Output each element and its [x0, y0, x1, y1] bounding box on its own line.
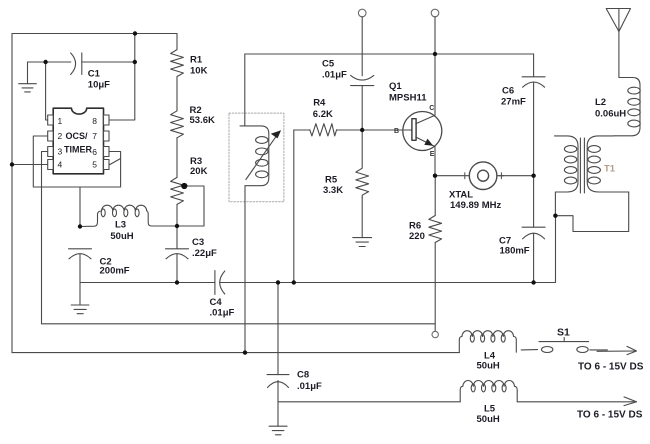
- inductor L3: [80, 205, 177, 226]
- wire C8 to L5 row: [278, 401, 460, 403]
- svg-text:5: 5: [92, 160, 97, 170]
- terminal circle T-R6: [432, 331, 438, 337]
- resistor R3: [171, 177, 184, 204]
- wire C1 left lead: [46, 61, 71, 63]
- variable inductor VL1: [240, 54, 269, 353]
- wire C1-right / pin8 riser x=134.8: [109, 34, 135, 121]
- svg-text:R6: R6: [409, 221, 421, 232]
- junction L3 left / C2 top: [78, 224, 82, 228]
- svg-text:TO 6 - 15V DS: TO 6 - 15V DS: [577, 410, 643, 421]
- svg-text:S1: S1: [557, 327, 570, 339]
- svg-text:C1: C1: [88, 69, 101, 80]
- svg-text:L3: L3: [115, 220, 126, 231]
- svg-text:XTAL: XTAL: [449, 190, 473, 201]
- svg-text:T1: T1: [604, 164, 616, 175]
- svg-text:.01μF: .01μF: [322, 70, 347, 81]
- wire bottom rail y=352.6 to L4: [12, 352, 459, 354]
- svg-text:10μF: 10μF: [88, 80, 110, 91]
- svg-text:Q1: Q1: [389, 81, 402, 92]
- svg-text:10K: 10K: [190, 66, 208, 77]
- resistor R4: [310, 124, 337, 136]
- svg-text:3: 3: [58, 147, 63, 157]
- svg-text:27mF: 27mF: [501, 97, 526, 108]
- capacitor C4: [215, 271, 225, 295]
- ground G2 under R5: [353, 238, 372, 247]
- junction VL bottom / supply rail: [243, 350, 247, 354]
- svg-text:50uH: 50uH: [477, 414, 500, 425]
- svg-text:180mF: 180mF: [500, 246, 530, 257]
- resistor R6: [429, 176, 442, 332]
- svg-text:20K: 20K: [190, 166, 208, 177]
- svg-text:8: 8: [92, 116, 97, 126]
- svg-text:L2: L2: [595, 97, 606, 108]
- junction XTAL right / C6-C7 column: [531, 174, 535, 178]
- inductor L4: [459, 331, 516, 353]
- wire pin5 diagonal: [109, 159, 121, 166]
- junction L3 right / R3 bottom / C3 top: [175, 224, 179, 228]
- variable inductor dashed box: [229, 113, 284, 202]
- wire mid rail y=54: [245, 53, 534, 55]
- junction R4 column / ground rail: [292, 280, 296, 284]
- svg-text:6: 6: [92, 147, 97, 157]
- wire Q1 emitter lead: [434, 146, 436, 175]
- capacitor C3: [166, 226, 189, 283]
- switch S1: [521, 338, 607, 353]
- junction collector / mid rail: [433, 52, 437, 56]
- IC U1 pins: [48, 115, 109, 170]
- ground G1 top-left: [19, 84, 37, 92]
- wire T1 primary bottom to junction: [554, 192, 556, 216]
- wire T1 secondary bottom staircase: [555, 192, 628, 232]
- svg-text:L5: L5: [484, 404, 496, 415]
- svg-text:C3: C3: [192, 237, 204, 248]
- junction pin4 / left border: [10, 162, 14, 166]
- wire R1-R2 lead: [176, 77, 178, 111]
- svg-text:0.06uH: 0.06uH: [595, 109, 626, 120]
- svg-text:220: 220: [409, 231, 425, 242]
- svg-text:TIMER: TIMER: [64, 145, 92, 155]
- svg-text:4: 4: [58, 160, 63, 170]
- wire R4 left riser: [293, 130, 295, 283]
- wire pin1 riser: [46, 62, 48, 120]
- wire C5 bottom lead: [361, 86, 363, 130]
- junction C1 right / pin8: [133, 60, 137, 64]
- resistor R5: [356, 130, 369, 197]
- T1 secondary winding: [587, 136, 629, 192]
- wire ground rail y=282.5: [80, 282, 215, 284]
- wire ground stub top-left: [28, 62, 46, 84]
- wire C5 top lead: [361, 17, 363, 76]
- svg-text:1: 1: [58, 116, 63, 126]
- wire R5 ground lead: [361, 197, 363, 237]
- svg-text:R4: R4: [313, 98, 326, 109]
- transistor Q1: [403, 112, 442, 151]
- junction top rail / C1 column: [133, 31, 137, 35]
- capacitor C8: [267, 283, 289, 402]
- wire top-left rail y=33: [12, 33, 177, 35]
- svg-text:R1: R1: [190, 55, 203, 66]
- capacitor C7: [522, 176, 545, 283]
- svg-text:MPSH11: MPSH11: [389, 93, 427, 104]
- T1 primary winding: [555, 136, 579, 192]
- junction C7 bottom / ground rail: [531, 280, 535, 284]
- svg-text:C8: C8: [297, 370, 309, 381]
- svg-text:OCS/: OCS/: [66, 131, 89, 141]
- junction C1 left / pin1: [43, 60, 47, 64]
- ground G3 under C2: [71, 283, 89, 314]
- svg-text:E: E: [430, 151, 435, 158]
- svg-text:149.89 MHz: 149.89 MHz: [450, 200, 501, 211]
- IC U1 OCS/TIMER body: [53, 108, 103, 174]
- antenna AE1: [606, 9, 630, 32]
- svg-text:53.6K: 53.6K: [190, 115, 215, 126]
- node R3 wiper dot: [181, 183, 187, 189]
- svg-text:TO 6 - 15V DS: TO 6 - 15V DS: [578, 362, 644, 373]
- crystal XTAL: [435, 162, 534, 190]
- junction T1 windings common: [553, 214, 557, 218]
- T1 core lines: [579, 138, 581, 193]
- wire pin4 to left border: [12, 164, 48, 166]
- svg-text:C6: C6: [502, 86, 514, 97]
- svg-text:B: B: [394, 128, 399, 135]
- wire ground rail y=282.5 right part: [220, 216, 556, 283]
- svg-text:C4: C4: [210, 297, 223, 308]
- svg-text:7: 7: [92, 131, 97, 141]
- svg-text:3.3K: 3.3K: [323, 185, 343, 196]
- junction C8 top / ground rail: [276, 280, 280, 284]
- svg-text:.01μF: .01μF: [210, 308, 235, 319]
- resistor R2: [171, 111, 184, 138]
- terminal circle T-C5: [358, 9, 366, 17]
- svg-text:C: C: [429, 105, 434, 112]
- ground G4 under C8: [269, 402, 287, 435]
- terminal circle T-Q1: [431, 9, 439, 17]
- capacitor C6: [522, 54, 545, 176]
- svg-text:C5: C5: [322, 59, 335, 70]
- svg-text:6.2K: 6.2K: [313, 109, 333, 120]
- svg-text:200mF: 200mF: [100, 266, 130, 277]
- wire R3 bottom lead: [176, 204, 178, 226]
- inductor L5: [460, 380, 517, 401]
- svg-text:.01μF: .01μF: [297, 381, 322, 392]
- capacitor C2: [69, 249, 92, 283]
- svg-text:50uH: 50uH: [110, 231, 133, 242]
- variable inductor arrow: [246, 130, 281, 179]
- arrow to supply row1: [597, 346, 637, 354]
- node C1 left junction: [28, 62, 71, 120]
- svg-text:.22μF: .22μF: [192, 248, 217, 259]
- wire pin2-pin6 U link: [33, 136, 120, 187]
- capacitor C1: [71, 53, 135, 75]
- svg-text:R5: R5: [325, 175, 338, 186]
- wire pin3 net down and right to terminal: [42, 152, 436, 324]
- wire L5 to arrow row2: [517, 401, 636, 403]
- wire R3 wiper tap: [177, 186, 204, 226]
- wire R4 right lead / base wire: [337, 129, 413, 131]
- svg-text:50uH: 50uH: [477, 361, 500, 372]
- wire U-bottom to L3 stem x=80: [79, 187, 81, 227]
- wire R4 left lead: [294, 129, 310, 131]
- wire R2-R3 lead: [176, 138, 178, 178]
- junction C3 bottom / ground rail: [175, 280, 179, 284]
- capacitor C5: [351, 75, 374, 85]
- wire left border vertical x=11.8: [11, 34, 13, 353]
- inductor L2: [614, 32, 641, 136]
- svg-text:2: 2: [58, 131, 63, 141]
- junction emitter / XTAL left / R6 top: [433, 174, 437, 178]
- wire Q1 collector column: [434, 17, 436, 115]
- resistor R1: [171, 34, 184, 77]
- transformer T1: [555, 136, 629, 232]
- junction R4 / C5 / R5 / Q1 base: [360, 128, 364, 132]
- arrow to supply row2: [624, 397, 636, 406]
